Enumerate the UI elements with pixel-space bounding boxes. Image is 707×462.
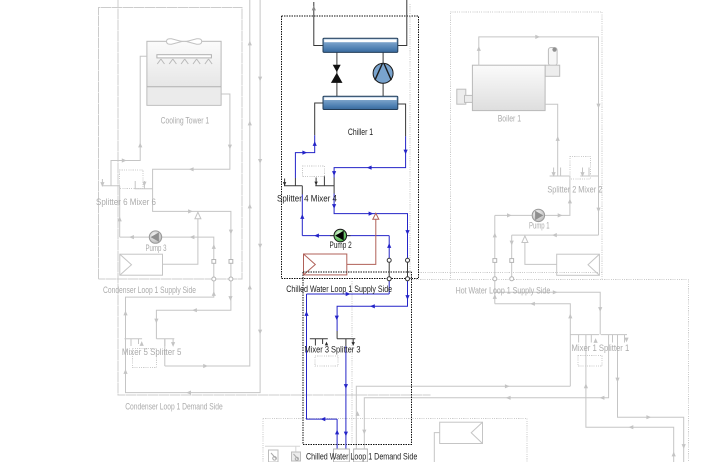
wire tower outlet to S-route	[153, 94, 231, 261]
svg-text:Chilled Water Loop 1 Demand Si: Chilled Water Loop 1 Demand Side	[306, 451, 417, 461]
splitter 4	[284, 178, 302, 195]
hot water demand box top dotted line	[419, 271, 604, 273]
wire splitter5 to chiller riser	[165, 0, 250, 366]
node line condenser demand inlet	[163, 217, 198, 265]
splitter/mixer dotted boxes (condenser)	[120, 170, 157, 367]
chilled water loop 1 demand side dotted box	[303, 272, 412, 445]
splitter/mixer dotted boxes (chilled)	[302, 166, 338, 366]
demand drop zone (hot water demand side)	[434, 422, 482, 462]
svg-text:Cooling Tower 1: Cooling Tower 1	[161, 116, 210, 126]
node hollow arrow (hot water)	[522, 236, 528, 243]
pump 3	[149, 231, 161, 243]
supply equipment drop zone (hot water)	[557, 254, 600, 275]
mixer 5	[125, 339, 143, 346]
condenser loop arrows	[100, 41, 262, 395]
hot water loop 1 supply side dashed box	[263, 12, 689, 462]
chiller condenser wires (dark gray)	[314, 0, 407, 136]
node hollow arrow (condenser)	[195, 212, 201, 219]
wire demand drop right	[337, 281, 407, 331]
svg-text:Chilled Water Loop 1 Supply Si: Chilled Water Loop 1 Supply Side	[286, 284, 392, 294]
svg-text:Boiler 1: Boiler 1	[498, 114, 521, 124]
wire demand supply drop	[156, 279, 231, 339]
svg-text:Splitter 4 Mixer 4: Splitter 4 Mixer 4	[277, 194, 337, 204]
wire port link segments	[214, 261, 231, 278]
splitter 6	[102, 179, 120, 186]
wire splitter4 to pump line	[301, 195, 303, 236]
port circles (condenser)	[212, 260, 233, 282]
wire demand return riser	[307, 281, 390, 419]
hot water loop wires (faded)	[356, 37, 683, 462]
svg-text:Mixer 3 Splitter 3: Mixer 3 Splitter 3	[305, 344, 361, 354]
mixer 3	[310, 339, 328, 346]
wire coil risers	[336, 419, 338, 449]
wire mixer4 to right port column	[334, 194, 407, 261]
hot water loop arrows	[355, 35, 685, 457]
port circles (chilled)	[387, 258, 409, 281]
svg-text:Pump 1: Pump 1	[529, 221, 550, 231]
wire pump line to port	[388, 236, 390, 261]
wire tower inlet from splitter 6	[111, 56, 147, 186]
wire evap right S-route	[334, 136, 406, 177]
wire coil2 return line	[356, 386, 570, 449]
wire evap left to splitter 4	[295, 135, 314, 178]
svg-text:Pump 3: Pump 3	[146, 243, 167, 253]
svg-text:Hot Water Loop 1 Supply Side: Hot Water Loop 1 Supply Side	[456, 286, 551, 296]
pump 1	[532, 209, 544, 221]
splitter/mixer dotted boxes (hot water)	[570, 156, 602, 366]
mixer 6	[135, 181, 153, 189]
blue arrows	[300, 141, 409, 436]
svg-text:Splitter 6 Mixer 6: Splitter 6 Mixer 6	[96, 197, 156, 207]
coil 1 box	[334, 449, 350, 462]
chilled water blue wires	[295, 135, 407, 449]
compressor	[373, 63, 393, 83]
dark segments near splitter3	[284, 176, 408, 346]
splitter 2	[550, 168, 570, 177]
svg-text:Pump 2: Pump 2	[330, 240, 352, 250]
wire boiler outlet top route	[479, 37, 599, 235]
condenser loop 1 supply side dashed box	[99, 7, 242, 279]
mixer 1	[570, 335, 599, 343]
svg-text:Mixer 5 Splitter 5: Mixer 5 Splitter 5	[122, 347, 181, 357]
bottom-left mini icons	[265, 446, 301, 462]
wire pump 3 line	[120, 237, 214, 261]
wire pump suction from ports	[494, 215, 496, 278]
wire splitter1 second output	[618, 335, 684, 462]
port circles (hot water)	[493, 259, 514, 281]
wire pump suction riser	[119, 186, 121, 237]
wire coil2 supply line	[364, 335, 608, 449]
chiller 1	[323, 38, 398, 109]
splitter 1	[601, 335, 627, 343]
wire pump 1 line	[495, 176, 570, 215]
cooling tower 1	[147, 39, 221, 106]
svg-text:Splitter 2 Mixer 2: Splitter 2 Mixer 2	[547, 185, 602, 195]
demand inlet node (red)	[304, 213, 379, 275]
mixer 2	[580, 168, 598, 177]
condenser loop 1 demand side dashed box	[118, 0, 430, 395]
wire mixer1 second input	[586, 335, 674, 462]
supply equipment drop zone (condenser)	[120, 254, 163, 275]
demand box top edge	[303, 271, 412, 273]
wire pump 2 line	[302, 235, 389, 237]
wire chiller condenser return drop	[126, 0, 261, 393]
splitter 3	[337, 331, 355, 346]
condenser loop wires (faded)	[102, 0, 260, 393]
wire demand return riser	[495, 279, 600, 387]
wire mixer2 line to ports	[512, 234, 599, 236]
node line hot water demand inlet	[525, 241, 557, 264]
svg-text:Condenser Loop 1 Demand Side: Condenser Loop 1 Demand Side	[125, 402, 223, 412]
svg-text:Condenser Loop 1 Supply Side: Condenser Loop 1 Supply Side	[103, 285, 196, 295]
chilled water loop 1 supply side dotted box	[282, 16, 419, 279]
wire boiler inlet	[545, 104, 558, 176]
svg-text:Mixer 1 Splitter 1: Mixer 1 Splitter 1	[572, 343, 630, 353]
port link segments	[389, 262, 407, 277]
svg-text:Chiller 1: Chiller 1	[348, 127, 373, 137]
wire port drop	[511, 235, 513, 278]
coil 2 box	[354, 449, 368, 462]
boiler 1	[457, 48, 560, 111]
mixer 4	[315, 176, 334, 193]
expansion valve	[333, 65, 341, 72]
black stub arrows	[283, 182, 355, 346]
pump 2	[334, 229, 347, 242]
splitter 5	[156, 339, 174, 366]
guide dotted lines	[352, 4, 410, 444]
pump nubs	[330, 235, 351, 237]
